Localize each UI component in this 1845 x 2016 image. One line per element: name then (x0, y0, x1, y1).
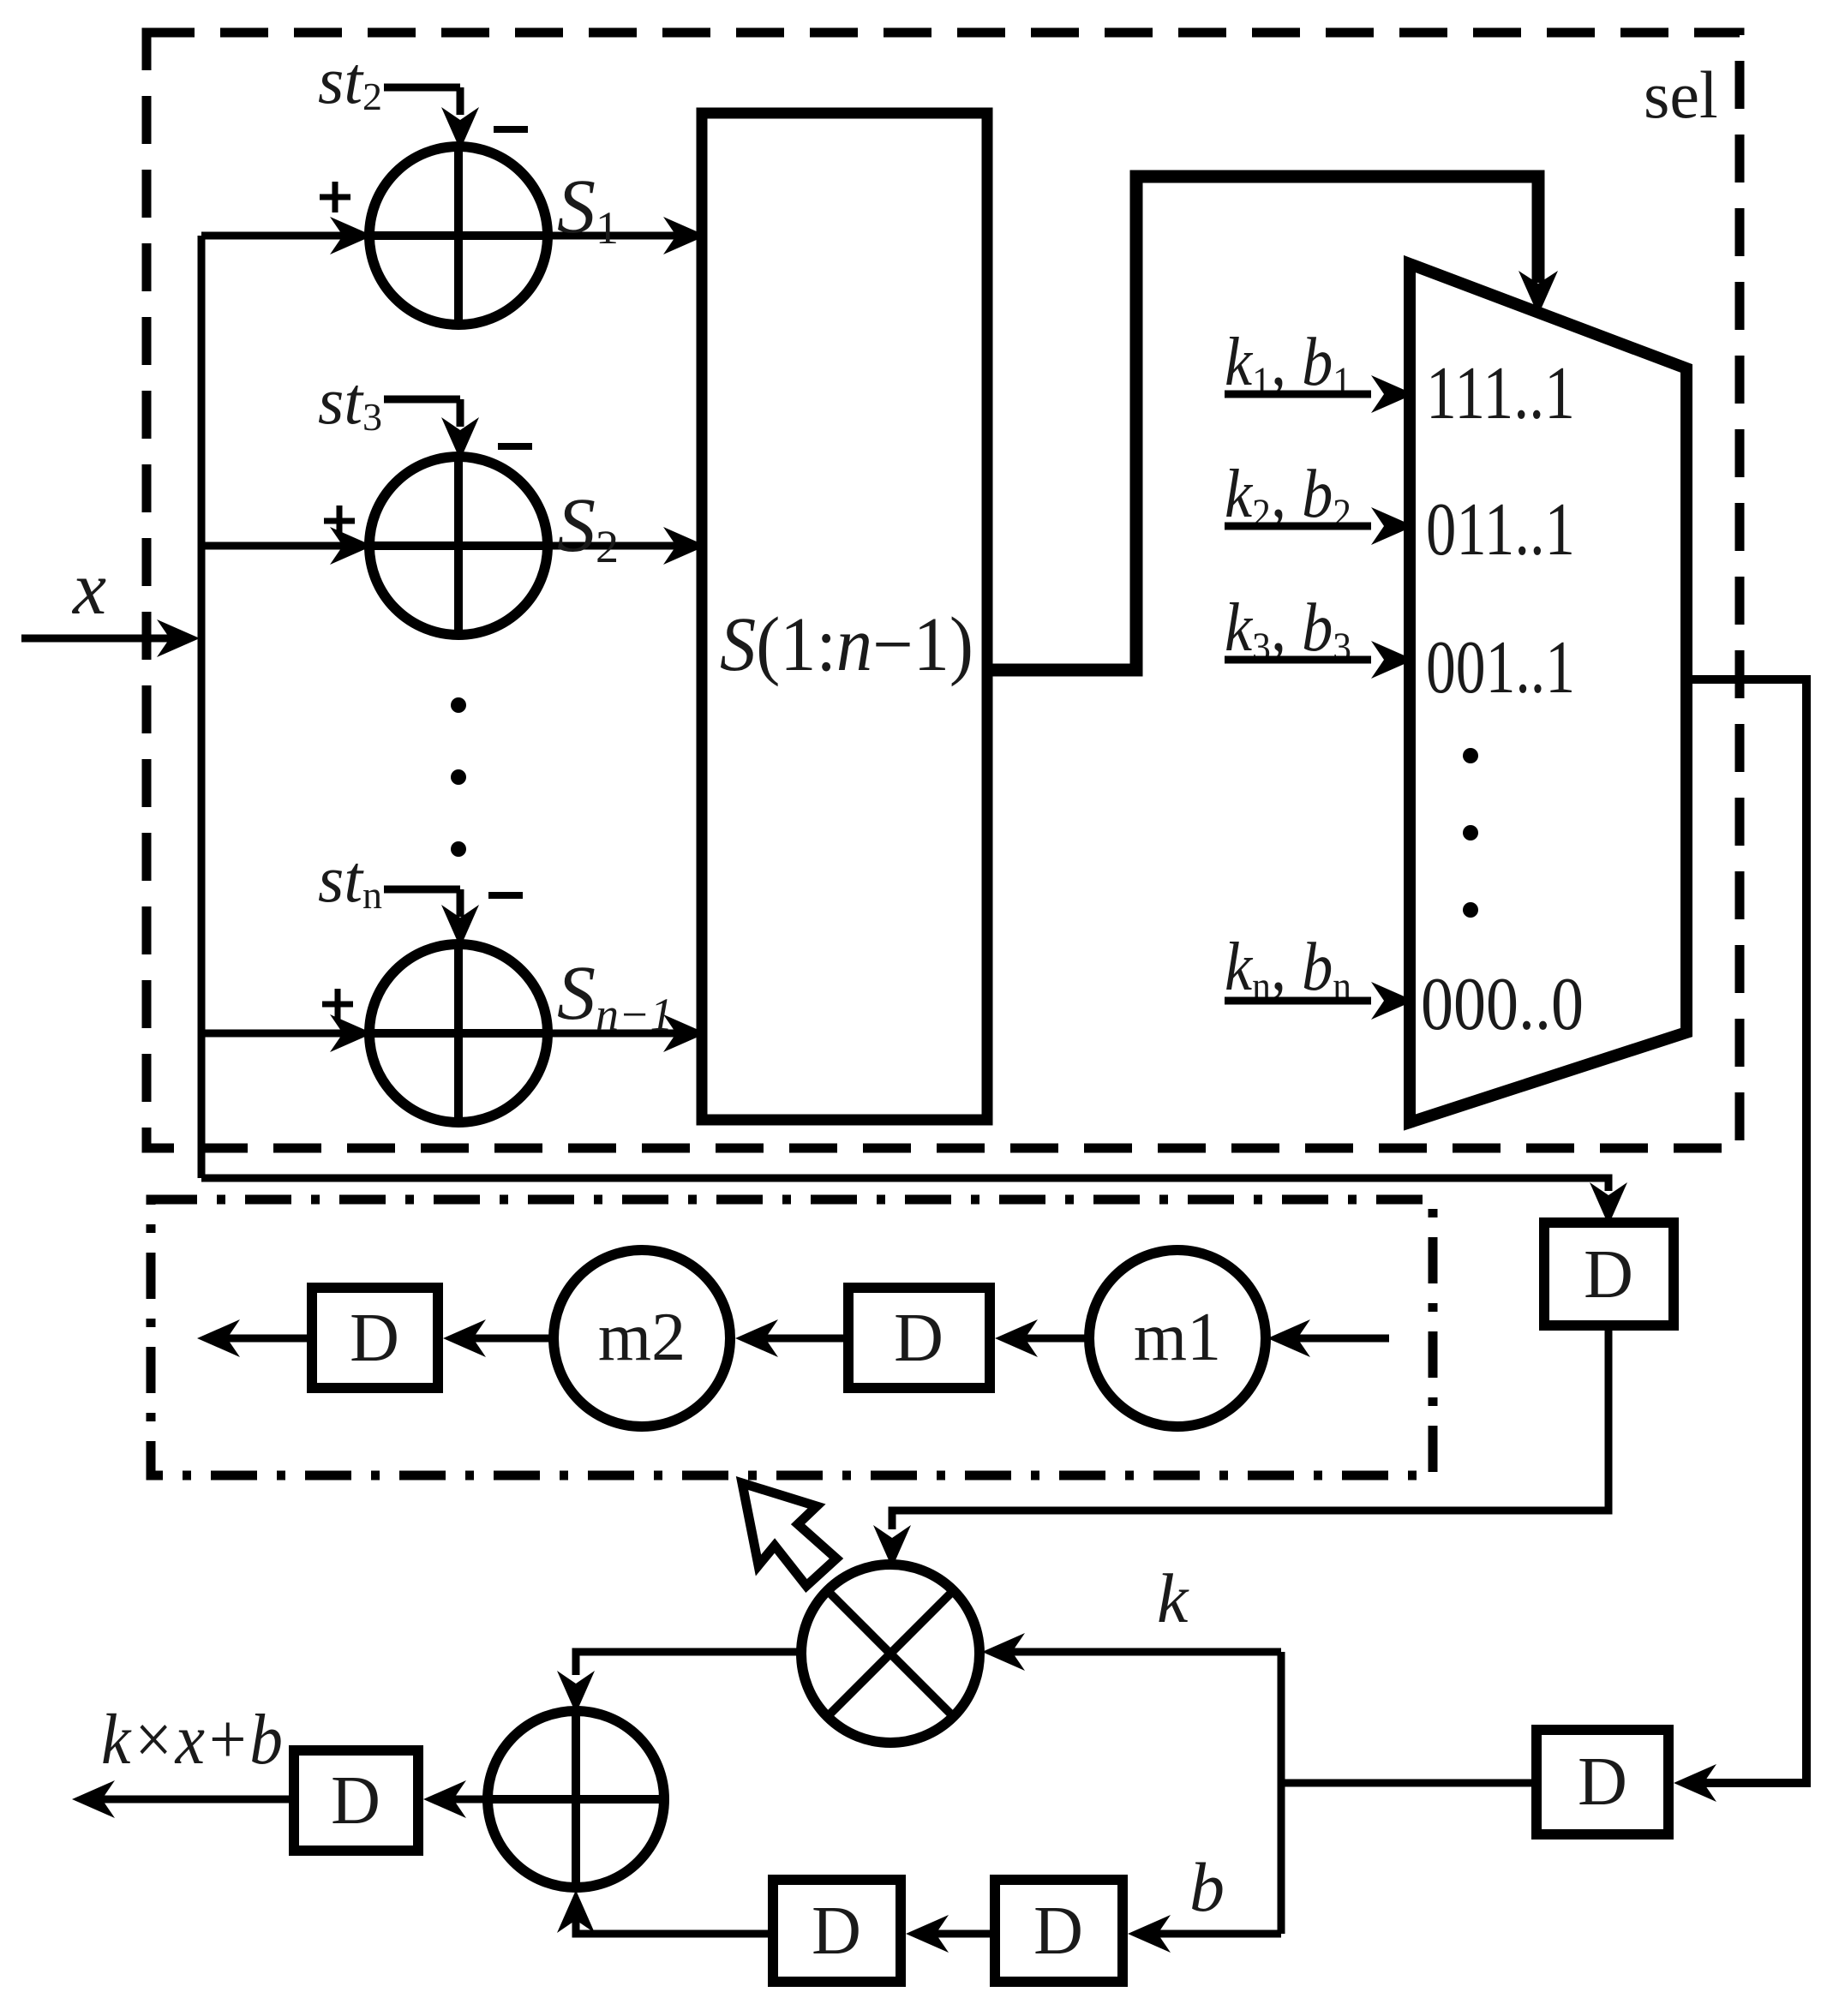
label minus sign A1 (494, 126, 528, 133)
dots between adder A2 and A3 (451, 697, 466, 857)
wire st2 into adder A1 (384, 87, 479, 150)
wire final output k*x+b (72, 1780, 294, 1818)
delay D8 (right of b-chain) (995, 1880, 1123, 1982)
svg-text:sel: sel (1644, 57, 1718, 132)
svg-text:b: b (1189, 1848, 1225, 1926)
svg-text:m2: m2 (598, 1300, 686, 1375)
wire k1,b1 into mux (1225, 375, 1414, 413)
wire D7 to adder A4 bottom input (557, 1890, 773, 1934)
wire adder A4 to delay D6 (423, 1780, 488, 1818)
wire m2 to D1 (443, 1319, 554, 1357)
svg-text:D: D (331, 1763, 380, 1839)
svg-text:m1: m1 (1134, 1300, 1221, 1375)
wire x input (21, 619, 200, 657)
wire branch to delay D4 (201, 1178, 1627, 1225)
svg-text:k: k (1157, 1559, 1189, 1637)
wire mux output to delay D5 (1674, 679, 1806, 1802)
dots inside mux (1463, 748, 1478, 918)
adder A4 (output summer) (488, 1711, 664, 1887)
wire m1 to D2 (995, 1319, 1089, 1357)
wire multiplier M1 output to adder A4 (557, 1652, 801, 1714)
delay D4 (top right) (1544, 1223, 1674, 1325)
wire k2,b2 into mux (1225, 507, 1414, 545)
wire D4 output to multiplier M1 (873, 1325, 1608, 1568)
dash-dot box (interpolation filter section) (151, 1199, 1433, 1475)
label plus sign A3 (322, 989, 353, 1020)
wire adder A1 plus input (201, 217, 378, 254)
multiplier m2 (554, 1250, 730, 1427)
register block S(1:n-1) (702, 113, 987, 1120)
svg-text:D: D (350, 1301, 399, 1376)
svg-text:000..0: 000..0 (1421, 963, 1584, 1046)
wire st3 into adder A2 (384, 399, 479, 460)
delay D1 (312, 1288, 438, 1388)
wire stn into adder A3 (384, 889, 479, 948)
label minus sign A3 (488, 892, 523, 899)
svg-text:011..1: 011..1 (1426, 488, 1575, 571)
label plus sign A1 (320, 182, 350, 212)
wire adder A2 plus input (201, 527, 378, 565)
svg-text:x: x (71, 547, 106, 631)
adder A2 (summer circle) (369, 457, 548, 635)
svg-text:S(1:n−1): S(1:n−1) (720, 602, 973, 687)
wire S1 output of adder A1 (544, 217, 706, 254)
label plus sign A2 (324, 505, 355, 536)
svg-text:D: D (894, 1301, 943, 1376)
wire output of delay D1 (left arrow out) (197, 1319, 312, 1357)
svg-text:001..1: 001..1 (1426, 626, 1575, 709)
adder A3 (summer circle) (369, 944, 548, 1122)
outer dashed box 'sel' (selector section) (147, 33, 1740, 1148)
wire input stub into m1 (1267, 1319, 1389, 1357)
wire Sn−1 output of adder A3 (544, 1014, 706, 1052)
svg-text:k×x+b: k×x+b (101, 1700, 283, 1780)
wire b to delay D8 (1128, 1915, 1281, 1953)
svg-text:D: D (812, 1893, 861, 1969)
wire D2 to m2 (735, 1319, 848, 1357)
label minus sign A2 (498, 443, 532, 450)
wire adder A3 plus input (201, 1014, 378, 1052)
wire kn,bn into mux (1225, 982, 1414, 1020)
delay D5 (bottom right) (1537, 1730, 1668, 1834)
delay D7 (left of b-chain) (773, 1880, 901, 1982)
svg-text:111..1: 111..1 (1426, 352, 1575, 435)
mux U1 (selector trapezoid) (1410, 264, 1686, 1122)
wire k3,b3 into mux (1225, 641, 1414, 679)
cursor pointer symbol (742, 1483, 836, 1586)
multiplier M1 (circle with X) (801, 1564, 979, 1743)
wire k into multiplier M1 (982, 1633, 1537, 1934)
svg-text:D: D (1033, 1893, 1083, 1969)
bus S(1:n-1) to mux select input (987, 176, 1558, 670)
wire input branch vertical (198, 236, 206, 1178)
adder A1 (summer circle) (369, 147, 548, 325)
delay D6 (output) (294, 1750, 418, 1851)
delay D2 (848, 1288, 990, 1388)
wire S2 output of adder A2 (544, 527, 706, 565)
wire D8 to D7 (906, 1915, 995, 1953)
svg-text:D: D (1584, 1237, 1633, 1313)
multiplier m1 (1089, 1250, 1266, 1427)
svg-text:D: D (1578, 1744, 1627, 1820)
